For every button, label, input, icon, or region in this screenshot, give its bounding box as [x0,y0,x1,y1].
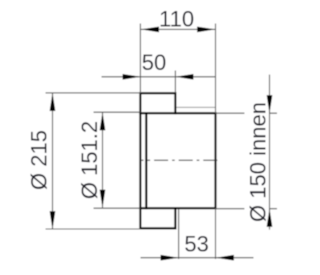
svg-text:Ø 151.2: Ø 151.2 [77,121,102,199]
ext 50 right [174,71,176,94]
dim line 50 [102,76,216,78]
d215 [50,93,56,111]
body left inner edge [145,113,147,208]
ext d150 bottom [216,208,278,210]
d151.2 [100,112,106,130]
dim line 53 [141,257,254,259]
53 outside [161,255,179,261]
d150 outside [267,95,273,113]
svg-text:Ø 215: Ø 215 [26,130,51,190]
ext 110 left [139,24,141,94]
ext d151.2 top [94,111,141,113]
lip right edge top [174,93,176,113]
svg-text:53: 53 [184,231,208,256]
lip right edge bottom [174,208,176,228]
part outline: flange ring left/top/bottom edges [140,93,215,228]
dim line d151.2 [102,112,104,208]
dim line 110 [140,28,215,30]
body outline [140,113,215,208]
ext 110/150 right [215,24,217,114]
svg-text:50: 50 [142,50,166,75]
ext d215 bottom [46,228,141,230]
thin dimension / extension lines [46,24,278,260]
110 left / right [141,27,159,33]
50 outside [123,74,141,80]
dim line d215 [52,93,54,229]
dim line d150 [269,75,271,230]
ext right lower (53) [215,208,217,259]
ext d150 top [216,112,278,114]
hidden bore line [177,106,216,108]
ext d151.2 bottom [94,207,141,209]
centerline [140,159,220,161]
arrowheads [50,27,273,261]
svg-text:110: 110 [159,6,194,31]
ext d215 top [46,92,141,94]
ext 53 left [178,209,180,259]
svg-text:Ø 150 innen: Ø 150 innen [245,102,270,222]
